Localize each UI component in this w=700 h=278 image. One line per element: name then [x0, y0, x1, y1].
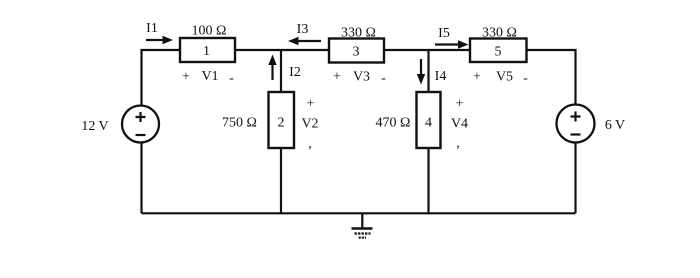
resistor R3 (box)	[329, 39, 384, 63]
svg-text:330 Ω: 330 Ω	[482, 26, 517, 41]
wire: top rail R1 to R3 through node A	[235, 49, 329, 51]
wire: top rail R3 to R5 through node B	[384, 49, 470, 51]
current arrow I2 (upward)	[268, 55, 276, 81]
resistor R2 (vertical box)	[269, 92, 295, 148]
svg-text:4: 4	[425, 116, 432, 131]
current arrow I5	[435, 40, 469, 48]
svg-text:V4: V4	[451, 117, 468, 132]
svg-text:V1: V1	[201, 69, 218, 84]
svg-text:3: 3	[353, 45, 360, 60]
resistor R5 (box)	[470, 39, 527, 63]
svg-text:+: +	[333, 70, 341, 85]
svg-text:12 V: 12 V	[81, 119, 108, 134]
wire: node B down to R4 top lead	[427, 50, 429, 92]
svg-text:I1: I1	[146, 21, 158, 36]
wire: node A down to R2 top lead	[280, 50, 282, 92]
svg-text:+: +	[456, 97, 464, 112]
voltage source 6 V (right)	[557, 105, 595, 143]
current arrow I3	[288, 37, 321, 45]
svg-text:750 Ω: 750 Ω	[222, 116, 257, 131]
wire: left riser from 12V source up to top rail and across to R1	[142, 50, 181, 106]
wire: bottom rail	[142, 212, 576, 214]
svg-text:,: ,	[308, 137, 312, 152]
wire: right riser from 6V source down to bottom rail	[574, 143, 576, 214]
svg-text:470 Ω: 470 Ω	[376, 116, 411, 131]
svg-text:I4: I4	[435, 69, 447, 84]
svg-text:5: 5	[495, 45, 502, 60]
svg-text:I2: I2	[289, 65, 301, 80]
svg-text:-: -	[381, 71, 386, 86]
svg-text:,: ,	[456, 136, 460, 151]
svg-text:-: -	[229, 71, 234, 86]
svg-text:2: 2	[278, 116, 285, 131]
svg-text:6 V: 6 V	[605, 118, 625, 133]
wire: left riser from 12V source down to bottom rail	[140, 143, 142, 214]
svg-text:+: +	[473, 70, 481, 85]
wire: R5 to right riser down to 6V source	[527, 50, 576, 105]
current arrow I1	[146, 36, 173, 44]
svg-text:V3: V3	[353, 70, 370, 85]
svg-text:V2: V2	[301, 117, 318, 132]
svg-text:+: +	[182, 70, 190, 85]
svg-text:V5: V5	[496, 70, 513, 85]
svg-text:330 Ω: 330 Ω	[341, 26, 376, 41]
wire: R4 bottom lead to bottom rail	[427, 148, 429, 213]
svg-text:I5: I5	[438, 26, 450, 41]
resistor R1 (box)	[180, 38, 235, 62]
svg-text:-: -	[523, 71, 528, 86]
current arrow I4 (downward)	[417, 59, 425, 85]
resistor R4 (vertical box)	[417, 92, 441, 148]
ground symbol	[352, 213, 373, 237]
svg-text:1: 1	[203, 44, 210, 59]
svg-text:100 Ω: 100 Ω	[192, 24, 227, 39]
voltage source 12 V (left)	[122, 106, 159, 143]
svg-text:+: +	[307, 97, 315, 112]
svg-text:I3: I3	[297, 22, 309, 37]
wire: R2 bottom lead to bottom rail	[280, 148, 282, 213]
